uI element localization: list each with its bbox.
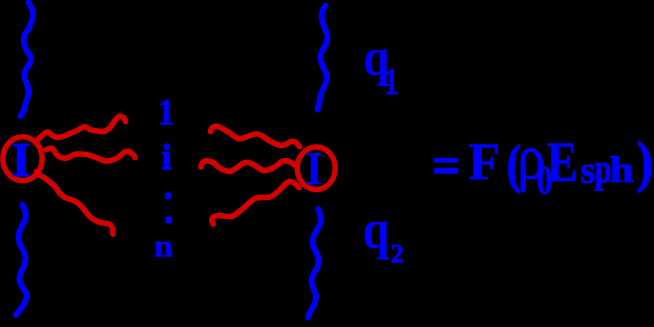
svg-text:I: I bbox=[12, 132, 31, 187]
wire: blue photon external leg bottom-left bbox=[16, 205, 27, 315]
svg-text:i: i bbox=[162, 137, 172, 177]
svg-text:E: E bbox=[547, 131, 578, 194]
wire: blue photon external leg bottom-right bbox=[308, 209, 321, 318]
node: left instanton vertex circle I bbox=[3, 137, 42, 181]
wire: red gluon line n into right vertex (lower) bbox=[212, 181, 299, 224]
wire: blue photon external leg top-right bbox=[318, 6, 328, 110]
svg-text:1: 1 bbox=[384, 62, 398, 103]
equals sign (upper bar) bbox=[434, 158, 458, 163]
svg-text:1: 1 bbox=[158, 93, 174, 134]
vertical ellipsis dot (lower) bbox=[165, 216, 172, 223]
wire: red gluon line 1 from left vertex (upper) bbox=[36, 116, 126, 142]
svg-text:): ) bbox=[637, 132, 653, 194]
wire: blue photon external leg top-left bbox=[21, 3, 33, 117]
equals sign (lower bar) bbox=[434, 168, 458, 174]
vertical ellipsis dot (upper) bbox=[165, 192, 172, 199]
svg-text:I: I bbox=[306, 143, 322, 195]
wire: red gluon line i into right vertex (middle) bbox=[201, 161, 295, 172]
svg-text:2: 2 bbox=[391, 239, 404, 269]
svg-text:F: F bbox=[468, 133, 500, 191]
svg-text:s: s bbox=[580, 150, 595, 192]
svg-text:q: q bbox=[363, 199, 390, 260]
wire: red gluon line i from left vertex (middle) bbox=[47, 148, 136, 161]
node: right instanton vertex circle I bbox=[297, 147, 335, 190]
wire: red gluon line n from left vertex (lower) bbox=[37, 172, 114, 235]
svg-text:n: n bbox=[154, 228, 173, 264]
wire: red gluon line 1 into right vertex (upper) bbox=[211, 126, 300, 146]
svg-text:h: h bbox=[610, 150, 634, 191]
